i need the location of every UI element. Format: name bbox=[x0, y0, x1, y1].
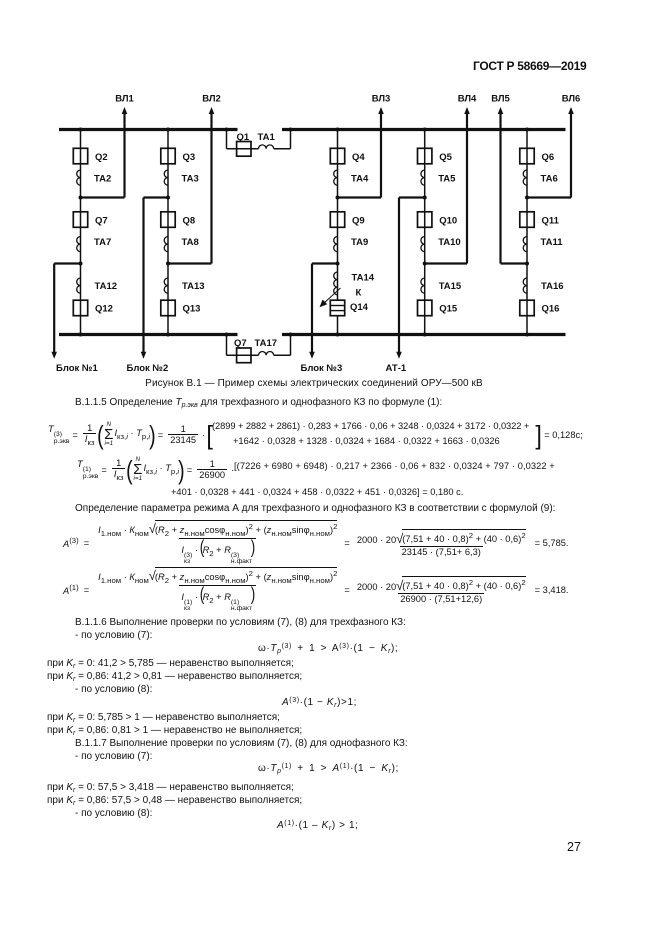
svg-text:Блок №2: Блок №2 bbox=[127, 363, 169, 374]
svg-text:АТ-1: АТ-1 bbox=[386, 363, 407, 374]
svg-text:Q14: Q14 bbox=[350, 302, 369, 313]
svg-text:Q3: Q3 bbox=[183, 152, 196, 163]
wire TA1 to bus bbox=[274, 148, 291, 150]
node column 1 lower tap bbox=[79, 262, 83, 266]
node column 3 lower tap bbox=[336, 262, 340, 266]
svg-text:TA2: TA2 bbox=[94, 174, 111, 185]
wire feeder ВЛ4 tap bbox=[425, 262, 467, 264]
wire top bypass rise bbox=[290, 130, 292, 149]
wire feeder ВЛ2 vertical bbox=[210, 111, 212, 264]
node bottom bypass right junction bbox=[289, 333, 293, 337]
svg-text:Q9: Q9 bbox=[352, 216, 365, 227]
svg-text:Блок №1: Блок №1 bbox=[56, 363, 99, 374]
svg-text:Q10: Q10 bbox=[439, 216, 457, 227]
wire feeder ВЛ3 tap bbox=[338, 196, 382, 198]
arrow ВЛ3 bbox=[378, 107, 384, 114]
svg-text:Блок №3: Блок №3 bbox=[301, 363, 343, 374]
wire diameter column 3 bbox=[337, 130, 339, 335]
node column 3 upper tap bbox=[336, 196, 340, 200]
svg-text:К: К bbox=[356, 288, 362, 299]
node column 2 / bottom bus bbox=[166, 333, 170, 337]
svg-text:ВЛ1: ВЛ1 bbox=[115, 94, 134, 105]
breaker Q4 bbox=[330, 148, 344, 164]
wire feeder ВЛ5 tap bbox=[501, 262, 528, 264]
node column 5 lower tap bbox=[525, 262, 529, 266]
formula A(1) bbox=[63, 567, 569, 613]
breaker Q11 bbox=[520, 212, 534, 228]
wire bottom bypass drop bbox=[226, 335, 228, 356]
arrow ВЛ1 bbox=[122, 107, 128, 114]
node column 3 / top bus bbox=[336, 128, 340, 132]
bottom busbar right section bbox=[282, 333, 566, 336]
svg-text:Q13: Q13 bbox=[183, 304, 201, 315]
svg-text:Q15: Q15 bbox=[439, 304, 458, 315]
svg-text:TA6: TA6 bbox=[541, 174, 558, 185]
current transformer TA16 bbox=[523, 278, 527, 293]
wire feeder ВЛ6 tap bbox=[527, 196, 571, 198]
node column 4 upper tap bbox=[423, 196, 427, 200]
svg-text:TA8: TA8 bbox=[182, 237, 199, 248]
wire feeder ВЛ1 vertical bbox=[123, 111, 125, 198]
current transformer TA12 bbox=[77, 278, 81, 293]
current transformer TA5 bbox=[421, 170, 425, 185]
svg-text:Q6: Q6 bbox=[542, 152, 555, 163]
svg-text:TA3: TA3 bbox=[182, 174, 199, 185]
current transformer TA15 bbox=[421, 278, 425, 293]
node column 1 / bottom bus bbox=[79, 333, 83, 337]
svg-text:TA5: TA5 bbox=[438, 174, 456, 185]
fault arrow at node K bbox=[324, 288, 341, 304]
svg-text:Q5: Q5 bbox=[439, 152, 452, 163]
arrow ВЛ4 bbox=[464, 107, 470, 114]
wire АТ-1 tap bbox=[399, 196, 425, 198]
breaker Q7 bbox=[73, 212, 87, 228]
node column 2 upper tap bbox=[166, 196, 170, 200]
svg-text:Q16: Q16 bbox=[542, 304, 560, 315]
svg-text:ВЛ5: ВЛ5 bbox=[491, 94, 510, 105]
arrow ВЛ2 bbox=[209, 107, 215, 114]
wire feeder ВЛ3 vertical bbox=[380, 111, 382, 198]
breaker Q5 bbox=[418, 148, 432, 164]
node column 3 / bottom bus bbox=[336, 333, 340, 337]
wire Блок №3 vertical bbox=[311, 264, 313, 356]
svg-text:TA11: TA11 bbox=[541, 237, 564, 248]
svg-text:TA12: TA12 bbox=[95, 281, 118, 292]
breaker Q14 (with internal bars) bbox=[330, 300, 344, 316]
node column 1 / top bus bbox=[79, 128, 83, 132]
bottom busbar left section bbox=[59, 333, 238, 336]
current transformer TA2 bbox=[77, 170, 81, 185]
node column 4 lower tap bbox=[423, 262, 427, 266]
svg-text:ВЛ2: ВЛ2 bbox=[202, 94, 221, 105]
svg-text:ВЛ6: ВЛ6 bbox=[562, 94, 581, 105]
breaker Q16 bbox=[520, 300, 534, 316]
wire feeder ВЛ6 vertical bbox=[570, 111, 572, 198]
breaker Q3 bbox=[161, 148, 175, 164]
current transformer TA8 bbox=[164, 237, 168, 252]
node column 2 / top bus bbox=[166, 128, 170, 132]
wire TA17 to bus bbox=[274, 354, 291, 356]
wire АТ-1 vertical bbox=[398, 198, 400, 356]
svg-text:TA1: TA1 bbox=[258, 132, 276, 143]
current transformer TA3 bbox=[164, 170, 168, 185]
current transformer TA17 bbox=[259, 352, 274, 356]
arrow Блок №2 bbox=[141, 352, 147, 359]
node column 2 lower tap bbox=[166, 262, 170, 266]
wire Блок №3 tap bbox=[312, 262, 338, 264]
svg-text:TA13: TA13 bbox=[182, 281, 205, 292]
current transformer TA11 bbox=[523, 237, 527, 252]
arrow Блок №1 bbox=[51, 352, 57, 359]
current transformer TA13 bbox=[164, 278, 168, 293]
breaker Q1 bbox=[237, 142, 251, 157]
svg-text:Q11: Q11 bbox=[542, 216, 560, 227]
formula A(3) bbox=[63, 520, 569, 566]
arrow Блок №3 bbox=[309, 352, 315, 359]
wire Блок №1 vertical bbox=[53, 264, 55, 356]
wire feeder ВЛ1 tap bbox=[81, 196, 125, 198]
breaker Q6 bbox=[520, 148, 534, 164]
wire feeder ВЛ5 vertical bbox=[499, 111, 501, 264]
svg-text:TA14: TA14 bbox=[352, 273, 375, 284]
svg-text:TA16: TA16 bbox=[541, 281, 564, 292]
arrow ВЛ6 bbox=[568, 107, 574, 114]
svg-text:TA7: TA7 bbox=[94, 237, 111, 248]
wire to Q7 tie bbox=[227, 354, 259, 356]
node top bypass left junction bbox=[225, 128, 229, 132]
node column 5 upper tap bbox=[525, 196, 529, 200]
svg-text:Q2: Q2 bbox=[95, 152, 108, 163]
breaker Q13 bbox=[161, 300, 175, 316]
top busbar left section bbox=[59, 128, 238, 131]
wire diameter column 1 bbox=[80, 130, 82, 335]
svg-text:Q1: Q1 bbox=[237, 132, 250, 143]
wire to Q1 bbox=[227, 148, 259, 150]
current transformer TA7 bbox=[77, 237, 81, 252]
svg-text:TA10: TA10 bbox=[438, 237, 461, 248]
svg-text:Q4: Q4 bbox=[352, 152, 365, 163]
node column 5 / top bus bbox=[525, 128, 529, 132]
breaker Q8 bbox=[161, 212, 175, 228]
wire top bypass drop bbox=[226, 130, 228, 149]
current transformer TA6 bbox=[523, 170, 527, 185]
wire diameter column 2 bbox=[167, 130, 169, 335]
current transformer TA9 bbox=[334, 237, 338, 252]
node column 1 upper tap bbox=[79, 196, 83, 200]
current transformer TA4 bbox=[334, 170, 338, 185]
wire Блок №1 tap bbox=[54, 262, 80, 264]
node column 5 / bottom bus bbox=[525, 333, 529, 337]
breaker Q2 bbox=[73, 148, 87, 164]
svg-text:TA4: TA4 bbox=[351, 174, 369, 185]
svg-text:TA15: TA15 bbox=[439, 281, 462, 292]
svg-text:Q7: Q7 bbox=[95, 216, 108, 227]
node column 4 / bottom bus bbox=[423, 333, 427, 337]
svg-text:ВЛ4: ВЛ4 bbox=[458, 94, 477, 105]
svg-text:Q8: Q8 bbox=[183, 216, 196, 227]
wire feeder ВЛ2 tap bbox=[168, 262, 212, 264]
breaker Q9 bbox=[330, 212, 344, 228]
node top bypass right junction bbox=[289, 128, 293, 132]
wire diameter column 4 bbox=[424, 130, 426, 335]
node column 4 / top bus bbox=[423, 128, 427, 132]
wire Блок №2 vertical bbox=[142, 198, 144, 356]
svg-text:TA9: TA9 bbox=[351, 237, 368, 248]
wire bottom bypass rise bbox=[290, 335, 292, 356]
svg-text:TA17: TA17 bbox=[255, 338, 278, 349]
wire diameter column 5 bbox=[526, 130, 528, 335]
svg-text:Q7: Q7 bbox=[234, 338, 247, 349]
breaker Q7 (bus tie) bbox=[237, 348, 251, 363]
svg-text:ВЛ3: ВЛ3 bbox=[372, 94, 391, 105]
breaker Q15 bbox=[418, 300, 432, 316]
svg-text:Q12: Q12 bbox=[95, 304, 113, 315]
node bottom bypass left junction bbox=[225, 333, 229, 337]
current transformer TA14 bbox=[334, 272, 338, 295]
arrow ВЛ5 bbox=[498, 107, 504, 114]
breaker Q12 bbox=[73, 300, 87, 316]
current transformer TA1 bbox=[259, 145, 274, 149]
wire Блок №2 tap bbox=[144, 196, 169, 198]
current transformer TA10 bbox=[421, 237, 425, 252]
wire feeder ВЛ4 vertical bbox=[466, 111, 468, 264]
arrow АТ-1 bbox=[396, 352, 402, 359]
breaker Q10 bbox=[418, 212, 432, 228]
top busbar right section bbox=[282, 128, 566, 131]
